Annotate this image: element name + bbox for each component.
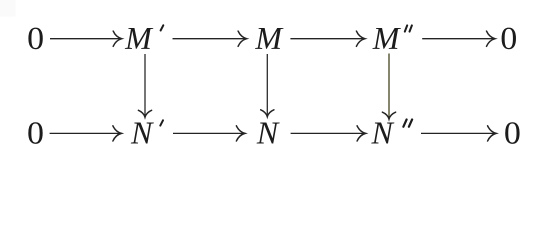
node M&#8242; : prime mark [161,25,164,30]
arrow M&#8243; &#8594; 0 [422,31,495,46]
faint scan artifact patch (top-left) [0,0,16,17]
node M&#8243; : first prime mark [405,25,407,31]
vertical arrow M&#8242; &#8595; N&#8242; [138,54,151,117]
node M&#8243; : second prime mark [410,25,412,31]
node 0 (top-left) [28,28,42,50]
node 0 (bottom-right) [505,122,519,144]
node N&#8243; : first prime mark [403,120,406,127]
arrow N&#8242; &#8594; N [173,126,245,141]
node N&#8243; : second prime mark [409,120,412,127]
arrow 0 &#8594; M&#8242; [50,31,122,46]
arrow N &#8594; N&#8243; [291,126,366,141]
arrow M &#8594; M&#8243; [290,31,365,46]
node 0 (top-right) [502,28,516,50]
node M&#8243; : letter M [372,28,401,49]
node M [255,28,284,49]
node N&#8242; : prime mark [160,120,163,125]
node N [257,123,280,144]
vertical arrow M &#8595; N [261,54,274,117]
arrow 0 &#8594; N&#8242; [50,126,122,141]
vertical arrow M&#8243; &#8595; N&#8243; [382,54,395,120]
node 0 (bottom-left) [28,122,42,144]
node N&#8243; : letter N [371,123,394,144]
arrow N&#8243; &#8594; 0 [421,126,496,141]
node M&#8242; : letter M [125,28,154,49]
arrow M&#8242; &#8594; M [173,31,247,46]
node N&#8242; : letter N [131,123,154,144]
